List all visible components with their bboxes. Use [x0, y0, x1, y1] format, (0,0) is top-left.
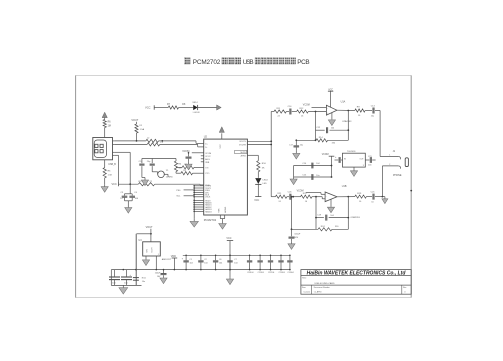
- svg-text:U2: U2: [204, 134, 208, 138]
- svg-text:VCC: VCC: [226, 237, 231, 240]
- svg-text:104: 104: [219, 263, 222, 265]
- svg-text:U1B: U1B: [342, 185, 347, 188]
- svg-text:VCOM: VCOM: [297, 190, 304, 192]
- svg-text:1.5A: 1.5A: [140, 128, 145, 131]
- svg-text:1.5K: 1.5K: [108, 175, 113, 177]
- svg-text:104: 104: [234, 263, 237, 265]
- svg-text:AGND: AGND: [224, 206, 227, 212]
- svg-text:VDD: VDD: [171, 255, 176, 258]
- svg-text:VCC: VCC: [220, 144, 222, 149]
- svg-text:C20104: C20104: [247, 272, 253, 274]
- svg-text:MUTE: MUTE: [240, 152, 246, 154]
- svg-text:1: 1: [389, 155, 390, 157]
- svg-text:10u: 10u: [300, 144, 303, 146]
- svg-text:XTO: XTO: [205, 173, 210, 175]
- svg-text:VCC2: VCC2: [205, 156, 211, 158]
- svg-text:3: 3: [363, 165, 364, 167]
- svg-text:Custom: Custom: [303, 290, 310, 293]
- svg-text:104: 104: [204, 263, 207, 265]
- svg-text:104: 104: [112, 283, 115, 285]
- svg-text:C22104: C22104: [268, 272, 274, 274]
- svg-text:HaiBin WAVETEK ELECTRONICS Co.: HaiBin WAVETEK ELECTRONICS Co., Ltd: [307, 271, 407, 277]
- svg-text:VOUTL: VOUTL: [239, 141, 247, 143]
- svg-text:USB_B: USB_B: [108, 164, 116, 166]
- svg-text:10u: 10u: [316, 175, 319, 177]
- svg-text:VCOM: VCOM: [303, 105, 310, 107]
- svg-text:OPA2353: OPA2353: [342, 120, 352, 123]
- svg-text:C1: C1: [190, 259, 192, 261]
- svg-text:0: 0: [404, 291, 405, 293]
- svg-text:VOUT: VOUT: [146, 226, 153, 229]
- svg-text:ZERO: ZERO: [240, 156, 246, 158]
- svg-text:C2: C2: [204, 259, 206, 261]
- svg-text:LL4148: LL4148: [193, 112, 201, 114]
- svg-text:1M: 1M: [178, 168, 181, 170]
- svg-text:XTI: XTI: [205, 167, 209, 169]
- svg-text:VCOM: VCOM: [322, 154, 329, 156]
- svg-text:10u: 10u: [142, 281, 145, 283]
- svg-text:VOUT: VOUT: [151, 247, 153, 253]
- svg-text:16V: 16V: [294, 237, 298, 239]
- svg-text:D-: D-: [205, 147, 207, 149]
- svg-text:10u: 10u: [371, 116, 374, 118]
- svg-text:Rev: Rev: [403, 287, 406, 289]
- svg-text:VCC: VCC: [254, 199, 259, 202]
- svg-text:LED: LED: [263, 183, 268, 185]
- svg-text:AMS1117: AMS1117: [162, 258, 172, 261]
- svg-text:PCM2702: PCM2702: [204, 218, 217, 222]
- svg-text:1M: 1M: [108, 125, 111, 127]
- svg-text:SS14: SS14: [192, 102, 198, 104]
- svg-text:104: 104: [124, 283, 127, 285]
- svg-text:C7: C7: [234, 259, 236, 261]
- svg-text:VOUT: VOUT: [131, 119, 138, 122]
- svg-text:104: 104: [190, 263, 193, 265]
- svg-text:<J_BPS>: <J_BPS>: [314, 290, 323, 293]
- svg-text:USB-SOUND-CARD: USB-SOUND-CARD: [315, 282, 335, 285]
- svg-text:PCM2702: PCM2702: [193, 59, 221, 66]
- svg-text:PHONE: PHONE: [393, 174, 402, 177]
- svg-text:Size: Size: [302, 287, 306, 289]
- svg-text:C24104: C24104: [287, 272, 293, 274]
- svg-text:VCOM: VCOM: [205, 153, 211, 155]
- svg-text:USB: USB: [243, 59, 254, 66]
- svg-text:OPA2353: OPA2353: [350, 216, 360, 219]
- svg-text:Document Number: Document Number: [314, 286, 330, 289]
- svg-text:1: 1: [158, 254, 159, 256]
- svg-text:12MHz: 12MHz: [166, 177, 173, 179]
- svg-text:2: 2: [389, 164, 390, 166]
- svg-text:Title:: Title:: [302, 277, 307, 280]
- svg-text:C21104: C21104: [258, 272, 264, 274]
- svg-text:100uF: 100uF: [155, 272, 161, 274]
- svg-text:C23104: C23104: [279, 272, 285, 274]
- svg-text:100uF: 100uF: [294, 233, 301, 235]
- svg-text:TLE2426: TLE2426: [347, 151, 356, 153]
- svg-text:C6: C6: [219, 259, 221, 261]
- svg-text:LED2: LED2: [263, 180, 269, 182]
- svg-text:VCC: VCC: [112, 183, 117, 186]
- svg-text:VCC: VCC: [145, 106, 151, 110]
- svg-text:VOUTR: VOUTR: [239, 145, 247, 147]
- svg-text:AGG: AGG: [205, 158, 210, 161]
- svg-text:PCB: PCB: [297, 59, 310, 66]
- svg-text:VSS: VSS: [219, 208, 221, 213]
- svg-text:VBB: VBB: [205, 162, 210, 164]
- svg-text:LRCK: LRCK: [205, 197, 211, 199]
- svg-text:U1A: U1A: [341, 100, 346, 103]
- svg-text:HADD4: HADD4: [205, 210, 211, 213]
